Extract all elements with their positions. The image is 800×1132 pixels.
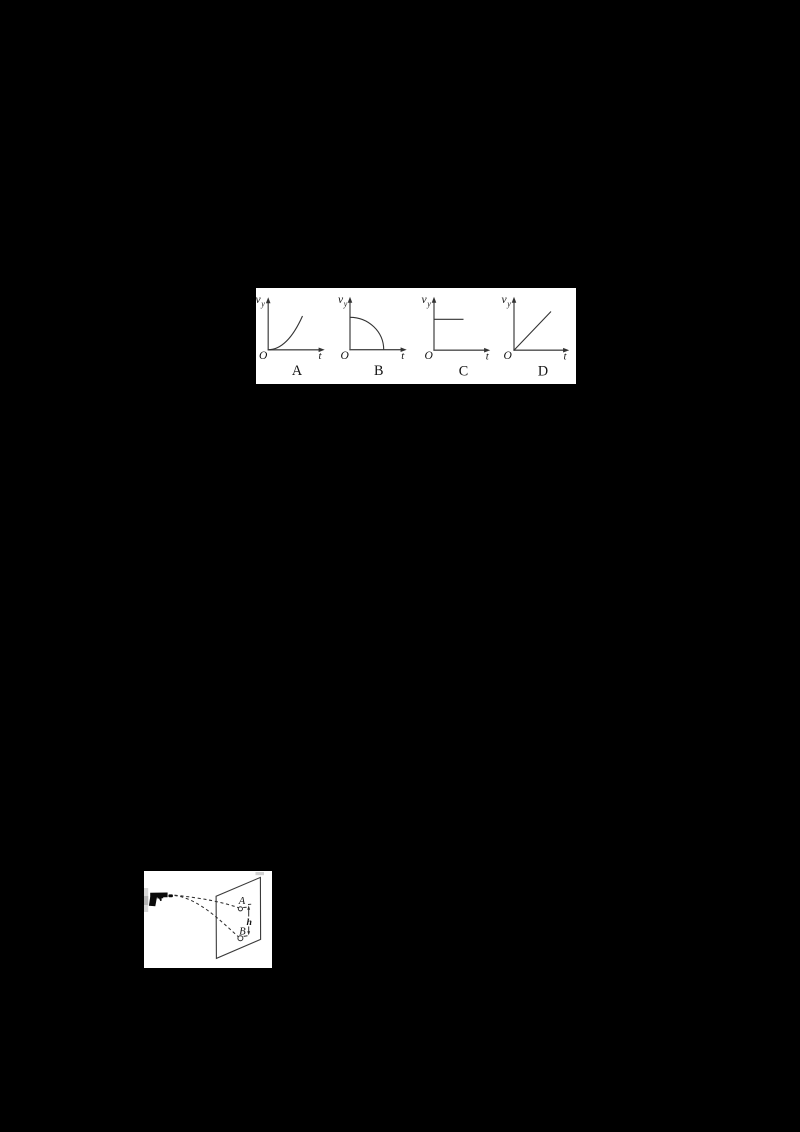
graph C y-axis bbox=[433, 301, 435, 351]
graph D y-axis bbox=[513, 301, 515, 351]
graph D x-axis arrowhead bbox=[563, 348, 569, 353]
pistol grip bbox=[149, 897, 157, 906]
dash from B to h-line bbox=[244, 935, 248, 938]
impact point A circle bbox=[238, 907, 242, 911]
graph C x-axis bbox=[433, 349, 485, 351]
scan artifact grey mark top right bbox=[256, 872, 265, 875]
graph C y-axis arrowhead bbox=[432, 297, 437, 303]
svg-text:y: y bbox=[343, 300, 348, 309]
lower bullet trajectory (dashed, to B) bbox=[175, 896, 240, 939]
graph D x-axis bbox=[513, 349, 564, 351]
svg-text:t: t bbox=[564, 350, 568, 362]
graph D y-axis arrowhead bbox=[512, 297, 517, 303]
board (vertical screen, parallelogram) bbox=[216, 877, 261, 958]
svg-text:C: C bbox=[459, 363, 468, 379]
graph B x-axis arrowhead bbox=[401, 347, 407, 352]
graph A x-axis bbox=[268, 349, 320, 351]
h dimension top arrowhead bbox=[247, 905, 250, 909]
graph B quarter-circle curve bbox=[350, 317, 384, 349]
upper bullet trajectory (dashed, to A) bbox=[175, 895, 240, 908]
svg-text:O: O bbox=[259, 350, 268, 362]
svg-text:y: y bbox=[260, 300, 265, 309]
svg-text:t: t bbox=[486, 350, 490, 362]
svg-text:t: t bbox=[319, 350, 323, 362]
graph A x-axis arrowhead bbox=[319, 348, 325, 353]
pistol trigger guard bbox=[157, 897, 163, 901]
graph A y-axis bbox=[267, 301, 269, 350]
graph A y-axis arrowhead bbox=[266, 297, 271, 303]
svg-text:A: A bbox=[292, 363, 303, 379]
svg-text:D: D bbox=[538, 363, 548, 379]
svg-text:O: O bbox=[341, 350, 350, 362]
pistol muzzle bbox=[168, 894, 173, 897]
svg-text:h: h bbox=[246, 917, 251, 928]
svg-text:t: t bbox=[401, 350, 405, 362]
scan artifact grey stripe left edge bbox=[144, 888, 148, 912]
graph B y-axis bbox=[349, 301, 351, 351]
pistol slide bbox=[150, 893, 167, 898]
svg-text:O: O bbox=[425, 350, 434, 362]
graph B x-axis bbox=[349, 349, 402, 351]
tick at top of h dimension line bbox=[248, 903, 251, 905]
figure panel: four v_y vs t graphs bbox=[256, 288, 576, 384]
h dimension line upper segment bbox=[248, 909, 250, 917]
svg-text:y: y bbox=[506, 300, 511, 309]
svg-text:A: A bbox=[238, 896, 246, 907]
h dimension line lower segment bbox=[248, 926, 250, 931]
svg-text:B: B bbox=[374, 363, 383, 379]
svg-text:O: O bbox=[504, 350, 513, 362]
svg-text:y: y bbox=[426, 300, 431, 309]
graph B y-axis arrowhead bbox=[348, 297, 353, 303]
dash from A to h-line bbox=[243, 906, 246, 908]
graph C x-axis arrowhead bbox=[484, 348, 490, 353]
impact point B circle bbox=[238, 936, 243, 941]
graph C horizontal line (constant v) bbox=[434, 318, 464, 320]
figure panel: pistol shooting at vertical board bbox=[144, 871, 272, 968]
h dimension bottom arrowhead bbox=[247, 931, 250, 935]
graph A curve (concave-up) bbox=[268, 316, 302, 350]
graph D straight diagonal line bbox=[514, 312, 551, 351]
